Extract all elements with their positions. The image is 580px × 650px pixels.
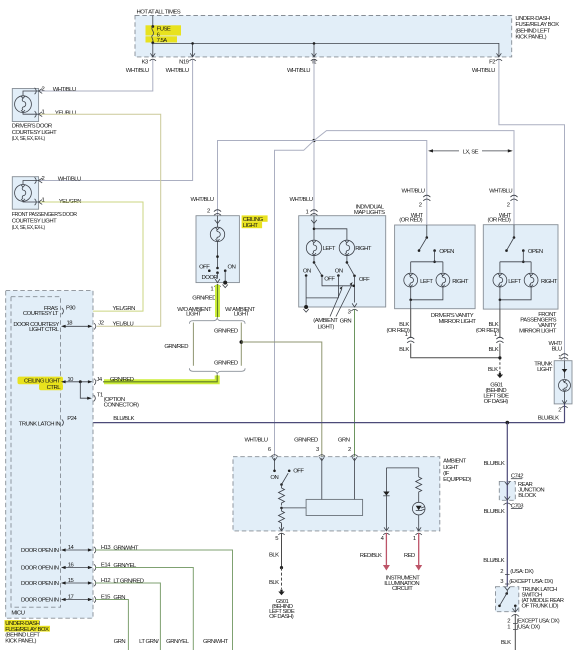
svg-text:OPEN: OPEN <box>439 249 454 255</box>
svg-text:BLU: BLU <box>552 346 562 352</box>
svg-text:GRN: GRN <box>338 438 350 444</box>
svg-text:LEFT: LEFT <box>420 279 433 285</box>
svg-text:GRN/RED: GRN/RED <box>164 344 188 350</box>
svg-text:WHT/BLU: WHT/BLU <box>287 68 310 74</box>
svg-text:(OR RED): (OR RED) <box>488 218 511 224</box>
svg-text:WHT/BLU: WHT/BLU <box>58 176 81 182</box>
svg-text:OF TRUNK LID): OF TRUNK LID) <box>522 604 559 610</box>
svg-text:BLU/BLK: BLU/BLK <box>538 416 559 422</box>
svg-text:COURTESY LT: COURTESY LT <box>23 311 59 317</box>
svg-text:YEL/BLU: YEL/BLU <box>55 110 76 116</box>
svg-text:1: 1 <box>405 332 408 338</box>
svg-text:LIGHT CTRL: LIGHT CTRL <box>29 327 59 333</box>
svg-text:MICU: MICU <box>11 611 24 617</box>
svg-text:2: 2 <box>558 407 561 413</box>
svg-text:RED: RED <box>404 553 415 559</box>
svg-text:OPEN: OPEN <box>528 249 543 255</box>
svg-text:LT GRN/RED: LT GRN/RED <box>113 579 143 585</box>
svg-text:WHT/BLU: WHT/BLU <box>401 188 424 194</box>
svg-text:DOOR OPEN IN: DOOR OPEN IN <box>21 548 59 554</box>
svg-text:HOT AT ALL TIMES: HOT AT ALL TIMES <box>137 9 181 15</box>
svg-text:BLK: BLK <box>489 347 499 353</box>
svg-text:DRIVER'S DOOR: DRIVER'S DOOR <box>12 124 52 130</box>
svg-text:F2: F2 <box>489 59 495 65</box>
svg-text:1: 1 <box>507 624 510 630</box>
svg-text:(IF: (IF <box>443 471 450 477</box>
svg-text:COURTESY LIGHT: COURTESY LIGHT <box>12 130 57 136</box>
svg-text:GRN/RED: GRN/RED <box>294 438 318 444</box>
svg-text:(AMBIENT: (AMBIENT <box>313 318 338 324</box>
svg-text:FUSE/RELAY BOX: FUSE/RELAY BOX <box>515 22 559 28</box>
svg-text:WHT/BLU: WHT/BLU <box>53 87 76 93</box>
svg-text:RIGHT: RIGHT <box>541 279 558 285</box>
svg-text:LX, SE: LX, SE <box>463 150 479 156</box>
svg-text:LEFT: LEFT <box>508 279 521 285</box>
svg-text:CONNECTOR): CONNECTOR) <box>104 403 139 409</box>
svg-text:ON: ON <box>335 269 343 275</box>
svg-text:YEL/GRN: YEL/GRN <box>113 306 136 312</box>
svg-text:OFF: OFF <box>293 469 304 475</box>
svg-text:ON: ON <box>228 264 236 270</box>
svg-text:OFF: OFF <box>324 276 335 282</box>
svg-text:BLOCK: BLOCK <box>518 493 536 499</box>
svg-text:WHT/BLU: WHT/BLU <box>289 197 312 203</box>
svg-text:MIRROR LIGHT: MIRROR LIGHT <box>439 319 477 325</box>
svg-text:2: 2 <box>207 209 210 215</box>
svg-text:GRN/RED: GRN/RED <box>214 328 238 334</box>
svg-text:WHT/BLU: WHT/BLU <box>244 438 267 444</box>
svg-text:ON: ON <box>270 475 278 481</box>
svg-text:MIRROR LIGHT: MIRROR LIGHT <box>519 329 557 335</box>
svg-text:J2: J2 <box>98 321 103 327</box>
svg-text:RIGHT: RIGHT <box>452 279 469 285</box>
svg-text:BLU/BLK: BLU/BLK <box>113 416 134 422</box>
svg-text:RIGHT: RIGHT <box>355 246 372 252</box>
svg-text:(LX, SE, EX, EX-L): (LX, SE, EX, EX-L) <box>12 136 45 142</box>
svg-text:LIGHT): LIGHT) <box>318 324 335 330</box>
svg-text:COURTESY LIGHT: COURTESY LIGHT <box>12 219 57 225</box>
svg-text:P24: P24 <box>67 416 77 422</box>
svg-text:WHT/BLU: WHT/BLU <box>489 188 512 194</box>
svg-text:BLU/BLK: BLU/BLK <box>484 509 505 515</box>
svg-text:1: 1 <box>558 355 561 361</box>
svg-text:KICK PANEL): KICK PANEL) <box>515 35 546 41</box>
svg-text:GRN/WHT: GRN/WHT <box>113 546 139 552</box>
svg-text:1: 1 <box>42 198 45 204</box>
svg-text:P30: P30 <box>66 305 76 311</box>
svg-text:1: 1 <box>494 332 497 338</box>
svg-text:MAP LIGHTS: MAP LIGHTS <box>354 210 385 216</box>
svg-text:(USA: DX): (USA: DX) <box>517 624 541 630</box>
svg-text:GRN/WHT: GRN/WHT <box>203 639 229 645</box>
svg-text:BLU/BLK: BLU/BLK <box>483 558 504 564</box>
svg-text:2: 2 <box>42 87 45 93</box>
svg-text:OF DASH): OF DASH) <box>269 614 294 620</box>
svg-text:DOOR OPEN IN: DOOR OPEN IN <box>21 598 59 604</box>
svg-text:GRN: GRN <box>340 319 352 325</box>
svg-text:BLK: BLK <box>399 347 409 353</box>
svg-text:CTRL: CTRL <box>47 385 62 391</box>
svg-text:2: 2 <box>348 447 351 453</box>
svg-text:TRUNK LATCH IN: TRUNK LATCH IN <box>19 422 61 428</box>
svg-text:(BEHIND LEFT: (BEHIND LEFT <box>515 28 550 34</box>
svg-text:WHT/BLU: WHT/BLU <box>166 68 189 74</box>
svg-text:BLK: BLK <box>269 580 279 586</box>
svg-text:FRONT PASSENGER'S DOOR: FRONT PASSENGER'S DOOR <box>12 212 77 218</box>
svg-text:LIGHT: LIGHT <box>443 465 459 471</box>
svg-text:1: 1 <box>413 536 416 542</box>
svg-text:2: 2 <box>42 176 45 182</box>
svg-text:AMBIENT: AMBIENT <box>443 459 467 465</box>
svg-text:17: 17 <box>68 594 74 600</box>
svg-text:EQUIPPED): EQUIPPED) <box>443 477 471 483</box>
svg-text:T1: T1 <box>97 393 103 399</box>
svg-text:LIGHT: LIGHT <box>234 312 250 318</box>
svg-text:(OR RED): (OR RED) <box>399 218 422 224</box>
svg-text:(USA: DX): (USA: DX) <box>510 569 534 575</box>
svg-text:OF DASH): OF DASH) <box>484 399 509 405</box>
svg-text:GRN: GRN <box>114 639 126 645</box>
svg-text:YEL/BLU: YEL/BLU <box>113 322 134 328</box>
svg-text:LIGHT: LIGHT <box>186 312 202 318</box>
svg-text:BLK: BLK <box>488 367 498 373</box>
svg-text:BLK: BLK <box>501 640 511 646</box>
svg-text:LIGHT: LIGHT <box>537 367 553 373</box>
svg-text:GRN/RED: GRN/RED <box>192 296 216 302</box>
svg-text:OFF: OFF <box>359 277 370 283</box>
svg-text:LT GRN/: LT GRN/ <box>139 639 159 645</box>
svg-text:LEFT: LEFT <box>323 246 336 252</box>
svg-text:2: 2 <box>419 202 422 208</box>
svg-text:BLK: BLK <box>269 553 279 559</box>
svg-text:(EXCEPT USA: DX): (EXCEPT USA: DX) <box>509 579 553 585</box>
svg-text:2: 2 <box>500 569 503 575</box>
svg-text:CIRCUIT: CIRCUIT <box>392 586 413 592</box>
svg-text:CEILING LIGHT: CEILING LIGHT <box>24 379 61 385</box>
svg-text:OFF: OFF <box>199 264 210 270</box>
svg-text:BLU/BLK: BLU/BLK <box>484 461 505 467</box>
svg-text:WHT/BLU: WHT/BLU <box>190 197 213 203</box>
svg-text:1: 1 <box>306 209 309 215</box>
svg-text:1: 1 <box>210 286 213 292</box>
svg-text:UNDER-DASH: UNDER-DASH <box>515 16 550 22</box>
svg-text:DOOR OPEN IN: DOOR OPEN IN <box>21 566 59 572</box>
svg-text:GRN/RED: GRN/RED <box>110 377 134 383</box>
svg-text:CEILING: CEILING <box>243 217 264 223</box>
svg-text:GRN: GRN <box>113 595 125 601</box>
svg-text:2: 2 <box>507 202 510 208</box>
svg-text:DOOR OPEN IN: DOOR OPEN IN <box>21 581 59 587</box>
svg-text:(LX, SE, EX, EX-L): (LX, SE, EX, EX-L) <box>12 225 45 231</box>
svg-text:WHT/BLU: WHT/BLU <box>126 68 149 74</box>
svg-text:RED/BLK: RED/BLK <box>360 553 382 559</box>
svg-text:GRN/YEL: GRN/YEL <box>113 563 137 569</box>
svg-text:KICK PANEL): KICK PANEL) <box>5 638 36 644</box>
svg-text:LIGHT: LIGHT <box>243 223 259 229</box>
svg-text:ON: ON <box>303 269 311 275</box>
svg-text:N19: N19 <box>179 59 189 65</box>
svg-text:WHT/BLU: WHT/BLU <box>472 68 495 74</box>
svg-text:DOOR: DOOR <box>202 275 218 281</box>
svg-text:GRN/YEL: GRN/YEL <box>166 639 190 645</box>
svg-text:GRN/RED: GRN/RED <box>214 361 238 367</box>
